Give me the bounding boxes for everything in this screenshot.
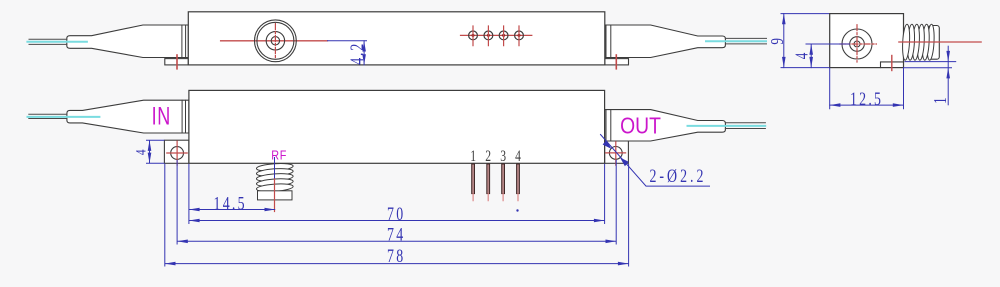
RF connector vertical red centerline (view1) xyxy=(274,24,276,58)
extension line body right edge xyxy=(604,164,606,224)
boot IN (view1) xyxy=(67,25,189,58)
SMA threads (view3) xyxy=(902,24,935,60)
pin cross ticks vertical (view1) xyxy=(473,26,519,46)
svg-text:2-Ø2.2: 2-Ø2.2 xyxy=(650,165,707,186)
arrows dim4 view2 xyxy=(148,140,152,151)
svg-text:4: 4 xyxy=(132,149,149,155)
fiber core cyan OUT (view1) xyxy=(706,40,766,42)
boot OUT (view1) xyxy=(605,25,726,58)
dim 12.5 (view3) xyxy=(830,68,904,109)
svg-text:78: 78 xyxy=(387,245,405,266)
svg-text:14.5: 14.5 xyxy=(214,192,247,213)
step notch (view3) xyxy=(881,62,904,68)
blue line to circle center (4-dim ext, view3) xyxy=(806,43,850,45)
mount hole left (view2) xyxy=(171,147,184,160)
fiber pigtail IN (view2) dark lines xyxy=(29,114,67,118)
svg-text:OUT: OUT xyxy=(620,114,661,139)
extension line left hole center xyxy=(176,160,178,245)
flange right (view2) xyxy=(605,140,629,163)
red crosshair (view3) xyxy=(840,25,876,62)
arrows 78 xyxy=(165,262,176,266)
pin numbers 1 2 3 4 xyxy=(470,147,521,164)
dim line 78 xyxy=(165,263,629,265)
svg-text:4.2: 4.2 xyxy=(346,42,367,65)
dim line 74 xyxy=(177,240,616,242)
arrows 70 xyxy=(189,219,200,223)
pins (view2) xyxy=(472,164,520,194)
screw hole circles (view3) xyxy=(842,29,872,59)
body end face (view3) xyxy=(830,14,904,68)
arrows 14.5 xyxy=(189,208,200,212)
dim line 14.5 xyxy=(189,209,275,211)
dim line 9 xyxy=(783,14,785,68)
SMA red centerline (view3) xyxy=(899,41,981,43)
svg-text:4: 4 xyxy=(793,52,812,59)
dim 4 (flange width view2) xyxy=(146,140,164,163)
fiber core cyan OUT (view2) xyxy=(688,125,766,127)
body (view2) xyxy=(189,90,605,163)
fiber pigtail IN (view1) dark lines xyxy=(29,39,67,44)
extension line flange-left edge xyxy=(164,164,166,267)
dimension 4.2 (view1) xyxy=(363,41,365,65)
dim 1 (view3) xyxy=(904,62,956,68)
svg-text:1: 1 xyxy=(931,97,950,104)
SMA tip (view3) xyxy=(929,26,940,60)
pin tails red (view2) xyxy=(473,194,518,201)
red mount-hole tick right (view1) xyxy=(615,55,617,69)
boot OUT end rings (view1) xyxy=(606,25,611,58)
svg-text:3: 3 xyxy=(500,147,506,164)
boot IN end rings (view2) xyxy=(182,100,185,133)
boot IN end rings (view1) xyxy=(182,25,186,58)
flange left (view2) xyxy=(164,140,189,163)
boot IN (view2) xyxy=(67,100,189,133)
body (view1) xyxy=(188,12,605,65)
svg-text:1: 1 xyxy=(470,147,476,164)
boot OUT end rings (view2) xyxy=(606,110,611,141)
pin circles (view1) xyxy=(469,31,524,40)
svg-text:12.5: 12.5 xyxy=(850,88,883,109)
red tick at step (view3) xyxy=(891,56,893,71)
flange tab right (view1) xyxy=(605,59,629,65)
svg-text:IN: IN xyxy=(152,102,171,131)
RF connector top circle (view1) xyxy=(255,20,297,62)
svg-text:74: 74 xyxy=(387,224,405,245)
RF SMA coil (view2) xyxy=(256,162,293,199)
dim 4 (view3) xyxy=(810,44,812,68)
red centerline (view1) xyxy=(221,40,328,42)
red mount-hole tick left (view1) xyxy=(176,55,178,69)
extension line body left edge xyxy=(188,164,190,224)
svg-text:2: 2 xyxy=(485,147,491,164)
svg-text:4: 4 xyxy=(515,147,521,164)
dim line 70 xyxy=(189,220,605,222)
fiber pigtail OUT (view1) dark lines xyxy=(725,38,766,44)
pins red axis line (view1) xyxy=(461,34,532,36)
svg-text:70: 70 xyxy=(387,203,405,224)
arrows 74 xyxy=(177,240,188,244)
leader 2-O2.2 xyxy=(601,135,710,187)
fiber core cyan IN (view2) xyxy=(28,116,100,118)
fiber core cyan IN (view1) xyxy=(27,41,87,43)
boot OUT (view2) xyxy=(605,110,726,141)
fiber pigtail OUT (view2) dark lines xyxy=(725,123,765,129)
arrows dim 9 xyxy=(782,14,786,25)
svg-text:RF: RF xyxy=(271,148,287,163)
flange tab left (view1) xyxy=(165,59,189,65)
extension line flange-right edge xyxy=(628,164,630,267)
mount hole right (view2) xyxy=(609,147,622,160)
svg-text:9: 9 xyxy=(768,38,787,45)
stray blue dot xyxy=(516,209,518,211)
blue extension of centerline (view1) xyxy=(328,40,367,42)
extension lines 9-dim xyxy=(781,14,830,68)
extension line right hole center xyxy=(615,160,617,245)
RF centerline blue+red (view2) xyxy=(274,158,276,180)
